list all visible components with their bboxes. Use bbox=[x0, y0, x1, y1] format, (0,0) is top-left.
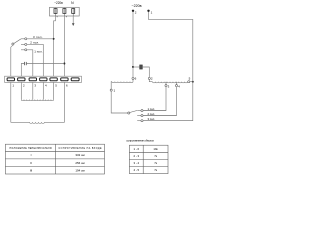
left table row line 3 bbox=[5, 166, 104, 168]
contact circle 2 (winding) bbox=[148, 77, 150, 79]
wire fuse2 to strip box6 bbox=[63, 16, 65, 76]
tap 3 lead bbox=[165, 82, 167, 85]
right table row line 2 bbox=[129, 158, 168, 160]
svg-text:1: 1 bbox=[151, 11, 153, 15]
svg-text:7к: 7к bbox=[154, 168, 158, 172]
svg-text:N: N bbox=[71, 1, 74, 5]
svg-text:6: 6 bbox=[135, 77, 137, 81]
contact circle 6 bbox=[132, 77, 134, 79]
wire SA2 row1 to tap3 bbox=[143, 110, 166, 112]
svg-text:3 - 4: 3 - 4 bbox=[133, 161, 139, 165]
wire box6 down bbox=[63, 82, 65, 122]
wire terminal2 down bbox=[132, 12, 134, 67]
svg-text:2: 2 bbox=[23, 84, 25, 88]
svg-text:19к: 19к bbox=[153, 147, 158, 151]
wire bottom loop left bbox=[11, 121, 30, 123]
wire fuse1 to switch row1 and strip box5 bbox=[54, 16, 56, 76]
wire junction to fuse bbox=[133, 66, 139, 68]
wire row2 to strip box4 bbox=[27, 44, 43, 76]
svg-text:3: 3 bbox=[34, 84, 36, 88]
fuse F2 bbox=[63, 8, 65, 16]
strip contact 2 bbox=[18, 78, 25, 81]
svg-text:5: 5 bbox=[55, 84, 57, 88]
svg-text:4 - 5: 4 - 5 bbox=[133, 168, 139, 172]
svg-text:4: 4 bbox=[45, 84, 47, 88]
switch SA2 pole circle bbox=[128, 112, 130, 114]
wire box3 tap bbox=[32, 82, 34, 99]
wire SA2 row2 to tap4 bbox=[143, 115, 176, 117]
svg-text:ПОЛОЖЕНИЕ ПЕРЕКЛЮЧАТЕЛЯ: ПОЛОЖЕНИЕ ПЕРЕКЛЮЧАТЕЛЯ bbox=[10, 147, 52, 150]
svg-text:332 ом: 332 ом bbox=[75, 153, 84, 157]
SA2 contact row1 stub bbox=[137, 110, 141, 112]
svg-text:2 - 3: 2 - 3 bbox=[133, 154, 139, 158]
svg-text:5: 5 bbox=[189, 77, 191, 81]
wire row1 to junction bbox=[27, 38, 54, 40]
switch SA1 contact 3 stub bbox=[21, 38, 25, 40]
svg-text:сопротивление обмоток: сопротивление обмоток bbox=[126, 139, 154, 143]
SA2 contact row3 stub bbox=[137, 120, 141, 122]
strip contact 5 bbox=[50, 78, 57, 81]
svg-text:3: 3 bbox=[168, 85, 170, 89]
wire box4 tap bbox=[42, 82, 44, 99]
SA2 contact row2 circle bbox=[141, 115, 143, 117]
right table row line 1 bbox=[129, 151, 168, 153]
fuse FU right bbox=[140, 65, 143, 69]
svg-text:I: I bbox=[31, 153, 32, 157]
plug arrow on lead 1 bbox=[57, 16, 58, 17]
junction dot at fuse branch bbox=[132, 66, 134, 68]
fuse box outline bbox=[50, 7, 80, 16]
arrow down on N wire bbox=[72, 23, 75, 26]
svg-text:256 ом: 256 ом bbox=[75, 161, 84, 165]
svg-text:1 пол.: 1 пол. bbox=[34, 50, 42, 54]
strip contact 7 (empty) bbox=[71, 78, 79, 81]
wire winding end to junction 5 bbox=[188, 81, 193, 83]
wire terminal1 right and down to switch row3 bbox=[143, 12, 193, 121]
svg-text:4: 4 bbox=[178, 85, 180, 89]
svg-text:2 пол.: 2 пол. bbox=[30, 41, 39, 45]
terminal dot 1 (right) bbox=[147, 10, 149, 12]
SA2 contact row2 stub bbox=[137, 115, 141, 117]
switch SA1 pole contact bbox=[12, 43, 14, 45]
svg-text:СОПРОТИВЛЕНИЕ НА ВХОДЕ: СОПРОТИВЛЕНИЕ НА ВХОДЕ bbox=[59, 147, 102, 150]
svg-text:2: 2 bbox=[151, 77, 153, 81]
switch SA1 contact 3 circle bbox=[25, 38, 27, 40]
contact circle 5 bbox=[188, 81, 190, 83]
wire pole to strip box1 bbox=[11, 45, 13, 76]
junction dot row1/fuse1 bbox=[53, 38, 55, 40]
switch SA1 contact 1 stub bbox=[21, 49, 25, 51]
left table frame bbox=[5, 144, 104, 174]
primary winding (taps 2-5) bbox=[21, 100, 53, 101]
switch SA1 contact 2 circle bbox=[25, 43, 27, 45]
wire contact1 down to pole bbox=[111, 91, 128, 113]
left table column divider bbox=[55, 144, 57, 174]
junction dot capacitor/box6 wire bbox=[63, 63, 65, 65]
switch SA1 arm bbox=[14, 39, 21, 44]
svg-text:III: III bbox=[30, 168, 33, 172]
svg-text:7к: 7к bbox=[154, 154, 158, 158]
wire winding1 left end down bbox=[110, 82, 113, 89]
wire row3 to strip box3 bbox=[27, 50, 33, 76]
right table row line 3 bbox=[129, 166, 168, 168]
contact circle 1 bbox=[110, 89, 112, 91]
fuse F3 bbox=[72, 8, 74, 16]
svg-text:194 ом: 194 ом bbox=[75, 168, 84, 172]
fuse F1 bbox=[55, 8, 57, 16]
capacitor C plates bbox=[24, 62, 26, 65]
strip contact 4 bbox=[40, 78, 47, 81]
wire tap4 to switch row2 bbox=[143, 87, 176, 116]
contact circle 4 bbox=[175, 85, 177, 87]
wire box5 down to winding bbox=[53, 82, 55, 99]
terminal strip outline bbox=[5, 76, 82, 82]
right table frame bbox=[129, 145, 168, 173]
wire capacitor to box6 vertical bbox=[27, 63, 65, 65]
wire SA2 row3 to right vertical bbox=[143, 120, 193, 122]
wire tap3 to switch row1 bbox=[143, 87, 166, 111]
switch SA2 arm bbox=[130, 111, 137, 113]
SA2 contact row3 circle bbox=[141, 120, 143, 122]
svg-text:II: II bbox=[30, 161, 32, 165]
terminal dot 2 (right) bbox=[132, 10, 134, 12]
svg-text:1 - 6: 1 - 6 bbox=[133, 147, 139, 151]
low-voltage winding bbox=[30, 122, 45, 123]
strip contact 1 bbox=[7, 78, 14, 81]
svg-text:7к: 7к bbox=[154, 161, 158, 165]
wire box1 down bbox=[10, 82, 12, 122]
switch SA1 contact 1 circle bbox=[25, 49, 27, 51]
wire contact2 to winding start bbox=[149, 79, 152, 81]
wire contact6 to winding right end bbox=[132, 79, 134, 81]
wire box2 to capacitor bbox=[21, 64, 24, 77]
strip contact 6 bbox=[61, 78, 68, 81]
contact circle 3 bbox=[165, 85, 167, 87]
svg-text:1: 1 bbox=[114, 88, 116, 92]
tap 4 lead bbox=[176, 82, 178, 85]
strip contact 3 bbox=[29, 78, 36, 81]
svg-text:3 пол.: 3 пол. bbox=[33, 35, 43, 39]
network winding 1-6 bbox=[112, 82, 133, 83]
junction dot 5 bbox=[192, 81, 194, 83]
left table row line 2 bbox=[5, 158, 104, 160]
svg-text:6: 6 bbox=[66, 84, 68, 88]
svg-text:~220в: ~220в bbox=[54, 1, 63, 5]
SA2 contact row1 circle bbox=[141, 110, 143, 112]
wire fuse to corner bbox=[143, 67, 150, 77]
plug arrow on lead 2 bbox=[66, 16, 67, 17]
svg-text:2: 2 bbox=[135, 11, 137, 15]
heater winding 2-5 bbox=[153, 82, 188, 83]
svg-text:1: 1 bbox=[12, 84, 14, 88]
wire box2 down to winding bbox=[20, 82, 22, 99]
switch SA1 contact 2 stub bbox=[21, 43, 25, 45]
right table column divider bbox=[142, 145, 144, 173]
wire fuse3 stub N bbox=[72, 16, 74, 24]
svg-text:~220в: ~220в bbox=[132, 4, 142, 8]
wire bottom loop right bbox=[45, 121, 65, 123]
wire junction to contact 6 bbox=[132, 67, 134, 77]
left table header separator bbox=[5, 150, 104, 152]
